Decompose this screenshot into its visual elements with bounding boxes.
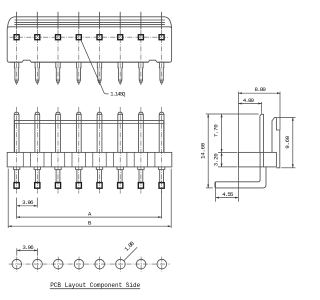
hole 2 pcb layout: [33, 259, 43, 269]
pin 5 tail top view: [99, 12, 101, 29]
pin 7 tail tip square front view: [138, 183, 143, 189]
pin 4 tail front view: [77, 170, 81, 183]
dimension 8.80: [238, 86, 280, 130]
centerline hole 1: [16, 257, 18, 272]
hole 6 pcb layout: [116, 259, 126, 269]
svg-text:3.20: 3.20: [213, 153, 220, 167]
pin bent tail side view: [215, 167, 266, 188]
pin 8 tail top view: [161, 12, 163, 29]
centerline pin 6 top view: [119, 30, 121, 86]
svg-text:1.14SQ: 1.14SQ: [110, 92, 125, 98]
centerline pin 4 front view: [78, 107, 80, 194]
svg-text:8.80: 8.80: [255, 86, 267, 93]
body rear step edges top view: [8, 17, 172, 28]
standoff pin 4 front view: [76, 167, 82, 170]
svg-text:4.80: 4.80: [243, 97, 255, 104]
latch side view: [272, 117, 280, 167]
mold seam lines front view: [23, 152, 155, 167]
pin 8 tail tip square front view: [159, 183, 164, 189]
hole 5 pcb layout: [95, 259, 105, 269]
connector body front view: [7, 152, 172, 167]
pin 4 tail top view: [78, 12, 80, 29]
pin 4 square section 1.14SQ: [76, 35, 81, 40]
pin 5 tail front view: [98, 170, 102, 183]
pin 6 post front view: [118, 112, 123, 152]
pin 1 tail top view: [16, 12, 18, 29]
pin 1 tail front view: [15, 170, 19, 183]
centerline hole 8: [161, 257, 163, 272]
pin 4 post front view: [76, 112, 81, 152]
hole 8 pcb layout: [157, 259, 167, 269]
pin 3 square section 1.14SQ: [56, 35, 61, 40]
svg-text:9.60: 9.60: [284, 135, 291, 149]
centerline pin 5 top view: [99, 30, 101, 86]
dimension 3.96 hole pitch: [17, 244, 38, 256]
hole 7 pcb layout: [136, 259, 146, 269]
dimension 7.70: [213, 114, 238, 152]
crosshair tail 3 front view: [57, 181, 59, 192]
pin 2 tail top view: [36, 12, 38, 29]
centerline hole 7: [140, 257, 142, 272]
connector body side view: [238, 152, 276, 167]
crosshair tail 1 front view: [16, 181, 18, 192]
pin 8 square section 1.14SQ: [159, 35, 164, 40]
pin 8 post front view: [159, 112, 164, 152]
pin 6 square section 1.14SQ: [118, 35, 123, 40]
svg-text:14.60: 14.60: [200, 142, 207, 159]
svg-text:3.96: 3.96: [22, 199, 34, 206]
crosshair tail 5 front view: [99, 181, 101, 192]
centerline pin 1 top view: [16, 30, 18, 86]
standoff pin 3 front view: [55, 167, 61, 170]
dimension 3.96 pin pitch front view: [17, 198, 38, 219]
svg-text:4.55: 4.55: [222, 191, 234, 198]
centerline pin 1 front view: [16, 107, 18, 194]
centerline pin 2 top view: [36, 30, 38, 86]
dimension 4.80: [238, 97, 261, 114]
dimension 14.60: [200, 114, 259, 188]
dimension 9.60: [277, 117, 295, 167]
pin 2 square section 1.14SQ: [35, 35, 40, 40]
pin 8 tail front view: [160, 170, 164, 183]
crosshair pin 5: [96, 36, 103, 38]
crosshair pin 7: [137, 36, 144, 38]
centerline pin 3 front view: [57, 107, 59, 194]
centerline hole 3: [57, 257, 59, 272]
centerline hole row: [9, 263, 170, 265]
pin 2 contact top view: [35, 62, 39, 83]
standoff pin 7 front view: [138, 167, 144, 170]
pin 5 post front view: [97, 112, 102, 152]
pin 3 post front view: [56, 112, 61, 152]
svg-text:1.80: 1.80: [123, 240, 136, 253]
pin 7 tail front view: [139, 170, 143, 183]
pin 5 square section 1.14SQ: [97, 35, 102, 40]
crosshair tail 7 front view: [140, 181, 142, 192]
centerline hole 5: [99, 257, 101, 272]
pin 1 contact top view: [14, 62, 18, 83]
pin 5 tail tip square front view: [97, 183, 102, 189]
hole 3 pcb layout: [53, 259, 63, 269]
standoff pin 6 front view: [117, 167, 123, 170]
crosshair pin 1: [13, 36, 20, 38]
hole 1 pcb layout: [12, 259, 22, 269]
crosshair tail 2 front view: [36, 181, 38, 192]
crosshair tail 4 front view: [78, 181, 80, 192]
crosshair tail 8 front view: [161, 181, 163, 192]
pin 6 tail tip square front view: [118, 183, 123, 189]
standoff pin 5 front view: [96, 167, 102, 170]
svg-text:PCB Layout Component Side: PCB Layout Component Side: [50, 282, 140, 289]
pin 6 contact top view: [118, 62, 122, 83]
pin 7 contact top view: [139, 62, 143, 83]
pin 6 tail front view: [118, 170, 122, 183]
standoff pin 2 front view: [34, 167, 40, 170]
pin 2 tail front view: [35, 170, 39, 183]
leader line 1.80: [124, 247, 137, 260]
centerline pin 4 top view: [78, 30, 80, 86]
pin 3 tail tip square front view: [55, 183, 60, 189]
pin 1 square section 1.14SQ: [14, 35, 19, 40]
dimension B: [8, 169, 171, 228]
centerline pin 8 top view: [161, 30, 163, 86]
hole 4 pcb layout: [74, 259, 84, 269]
shroud edges front view: [15, 121, 164, 153]
pin 7 post front view: [139, 112, 144, 152]
pin 2 tail tip square front view: [35, 183, 40, 189]
centerline hole 2: [37, 257, 39, 272]
svg-text:B: B: [88, 220, 92, 227]
pin 1 post front view: [14, 112, 19, 152]
pin 6 tail top view: [119, 12, 121, 29]
pin 4 tail tip square front view: [76, 183, 81, 189]
dimension 4.55: [216, 182, 239, 202]
svg-text:3.96: 3.96: [22, 244, 34, 251]
pin 1 tail tip square front view: [14, 183, 19, 189]
crosshair pin 8: [158, 36, 165, 38]
dimension 3.20: [213, 152, 238, 167]
pin 3 tail front view: [56, 170, 60, 183]
centerline pin 5 front view: [99, 107, 101, 194]
centerline pin row top view: [10, 36, 170, 38]
pin 2 post front view: [35, 112, 40, 152]
dimension A: [17, 191, 162, 219]
body bottom edge top view: [31, 61, 148, 63]
pin 8 contact top view: [159, 62, 163, 83]
body left edge extension side view: [237, 92, 239, 202]
crosshair pin 2: [34, 36, 41, 38]
crosshair pin 6: [117, 36, 124, 38]
pin 4 contact top view: [77, 62, 81, 83]
svg-text:A: A: [88, 211, 92, 218]
standoff pin 8 front view: [158, 167, 164, 170]
crosshair pin 4: [75, 36, 82, 38]
connector body top view: [7, 27, 171, 62]
crosshair tail 6 front view: [119, 181, 121, 192]
crosshair pin 3: [54, 36, 61, 38]
pin 5 contact top view: [97, 62, 101, 83]
svg-text:7.70: 7.70: [213, 124, 220, 138]
centerline hole 6: [119, 257, 121, 272]
pin 3 contact top view: [56, 62, 60, 83]
centerline pin 7 front view: [140, 107, 142, 194]
leader line 1.14SQ: [81, 40, 109, 94]
pin through body side view: [259, 152, 261, 167]
pin 7 tail top view: [140, 12, 142, 29]
pin 7 square section 1.14SQ: [138, 35, 143, 40]
centerline pin 2 front view: [36, 107, 38, 194]
standoff pin 1 front view: [13, 167, 19, 170]
centerline pin 8 front view: [161, 107, 163, 194]
pin 3 tail top view: [57, 12, 59, 29]
centerline pin 7 top view: [140, 30, 142, 86]
pin post side view: [260, 114, 264, 152]
centerline pin 6 front view: [119, 107, 121, 194]
centerline pin 3 top view: [57, 30, 59, 86]
centerline hole 4: [78, 257, 80, 272]
